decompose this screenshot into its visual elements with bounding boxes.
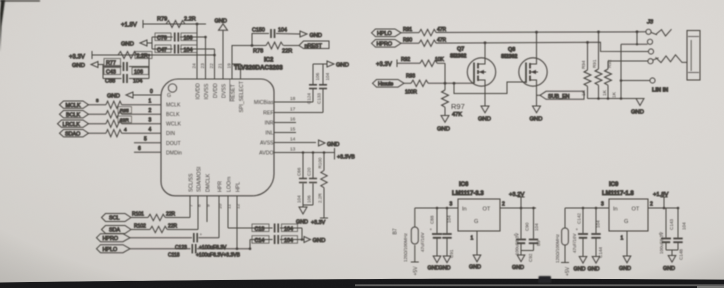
ground GND (below C66/C20) [296, 205, 308, 225]
IC2 designator label [234, 58, 283, 72]
wire DMDin stub pin6 [134, 146, 161, 152]
wire IC6 input rail [415, 202, 458, 210]
IC2 right pin labels [254, 100, 274, 157]
node junction +1.8V / IOVDD [196, 23, 199, 26]
IC2 bottom pin numbers [189, 203, 242, 209]
port HPLO (right section) [372, 29, 402, 37]
wire DMCLK stub pin9 [206, 196, 208, 222]
ferrite bead B8 120ohm/100MHz [555, 208, 571, 276]
wire Q8 drain to HPLO line [536, 32, 538, 59]
IC2 left pin labels [166, 93, 182, 157]
port SDAO [60, 130, 89, 138]
wire DVDD pin22 [214, 49, 216, 79]
wire C66/C20 bottoms join [303, 204, 313, 206]
overline on RESET [229, 80, 231, 102]
ground GND (left of C43/C88) [72, 62, 103, 70]
resistor R94 1K (pulldown, HPRO) [581, 42, 591, 98]
capacitor C14 104 [250, 235, 302, 244]
wire SCL to pin7 [189, 196, 191, 218]
resistor R93 100R [404, 74, 474, 96]
IC IC2 TLV320DAC3203 body [161, 79, 274, 196]
port BCLK [60, 111, 89, 119]
ground GND (IC9 tab pin1) [619, 231, 631, 272]
ground GND (AVSS) [319, 140, 340, 148]
J3 switch spring (tip) [651, 29, 671, 36]
capacitor C123 +100uF6.3V (HPR coupling) [130, 232, 227, 251]
port SCL [102, 214, 132, 222]
ground GND (R97) [437, 116, 450, 133]
capacitor C78 106 [152, 33, 206, 42]
resistor R79 2.2R [157, 17, 196, 28]
ground GND (C91) [439, 252, 451, 272]
capacitor C47 104 [152, 45, 215, 54]
wire pulldown bus [588, 98, 641, 100]
ground GND (C88el) [428, 252, 441, 272]
wire cap right join to +3.3V rail [148, 55, 150, 79]
capacitor C150 104 [252, 28, 300, 39]
wire DOUT stub pin5 [134, 137, 161, 143]
resistor R101 22R [131, 212, 190, 221]
ground GND (IC9 out caps) [663, 250, 676, 272]
wire C150/R78 join [251, 33, 253, 46]
wire Q8 source down [536, 85, 538, 106]
wire cap tops join [313, 63, 327, 65]
resistor R77 2.2R [104, 52, 152, 67]
ground GND (Q7) [478, 106, 491, 122]
resistor R (LRCLK series 22R) [89, 116, 162, 127]
wire SPI_SELECT [232, 64, 241, 79]
wire C13/C14 right join [301, 228, 303, 240]
capacitor C142el 47uF/16V [572, 208, 588, 253]
IC2 right pin stubs with numbers [274, 96, 330, 153]
wire jack contact row 4 [608, 60, 648, 62]
resistor R100 2.2R (AVDD to +3.3V) [318, 153, 327, 219]
net +3.3V (below R100) [311, 218, 328, 226]
connector J3 jack body [646, 20, 700, 81]
wire Q7 drain to HPRO line [484, 43, 486, 59]
wire HPL pin12 [236, 196, 238, 249]
port HPRO (right section) [372, 40, 402, 48]
port Hmute [373, 80, 405, 88]
wire HPRO to jack [436, 42, 648, 51]
ground GND (left of C78/C47) [121, 40, 152, 48]
capacitor C133 104 (REF) [317, 64, 330, 113]
wire HPLO to jack [436, 31, 646, 34]
wire cap left join [151, 37, 153, 49]
wire LOOm pin11 to C13 [227, 196, 229, 228]
resistor R97 47K (pulldown) [442, 83, 465, 118]
transistor Q8 SI2302 [501, 47, 547, 86]
J3 contact pins [646, 29, 655, 83]
capacitor C43 106 [103, 62, 149, 75]
capacitor C88el 47uF/16V [420, 208, 442, 252]
resistor R (MCLK series 22R) [89, 98, 162, 108]
resistor R96 1K (pulldown, ring) [605, 59, 618, 98]
wire RESET pin19 [232, 46, 252, 80]
ground GND (pin G row) [107, 89, 161, 100]
capacitor C20 106 (AVDD) [307, 153, 317, 206]
resistor R102 22R [131, 224, 198, 233]
wire Q7 source down [484, 85, 486, 106]
dark sliver top-left photo edge [0, 0, 5, 52]
ground GND (jack bus) [631, 99, 644, 116]
transistor Q7 SI2302 [450, 47, 496, 87]
net +1.8V [121, 20, 143, 29]
resistor R92 10K [397, 57, 445, 67]
capacitor C143el 100uF6.3V [659, 208, 674, 254]
capacitor C92 104 [521, 208, 541, 262]
IC2 top pin numbers [192, 63, 233, 69]
port HPLO [97, 245, 131, 253]
wire HPR pin10 [218, 196, 220, 238]
port MCLK [60, 101, 89, 109]
capacitor C13 104 [228, 224, 302, 233]
table edge highlight line bottom right [355, 284, 724, 286]
wire C14 left to HPLO line [249, 240, 251, 249]
wire +3.3V rail [92, 54, 215, 56]
capacitor C66 104 (AVDD) [297, 153, 307, 206]
IC2 top pin labels (vertical) [196, 80, 246, 112]
capacitor C124 106 (MICBias) [307, 64, 320, 104]
port LRCLK [58, 120, 89, 128]
port nREST [299, 41, 329, 49]
wire IOVSS pin23 [205, 37, 207, 79]
wire LIN IN sleeve row [620, 44, 668, 98]
wire IOVDD pin24 [196, 24, 198, 79]
port SDA [102, 226, 132, 234]
ferrite bead B7 120ohm/100MHz [393, 208, 420, 276]
regulator IC9 LM1117-1.8 [602, 182, 648, 231]
capacitor C91 104 [442, 208, 454, 258]
dark nub on table edge [539, 276, 552, 283]
ground GND (C144) [588, 252, 600, 273]
wire R92 down to Hmute row [444, 63, 446, 83]
ground GND (right of C150) [300, 31, 322, 39]
wire gate bus to Q8 [454, 82, 526, 94]
capacitor C88 104 [103, 74, 149, 85]
net +3.3V (R92) [376, 60, 397, 69]
resistor R (SDAO series 22R) [89, 127, 162, 137]
port SUB_EN [537, 91, 585, 100]
wire SDA to pin8 [197, 196, 199, 230]
ground GND (top right of caps) [327, 61, 349, 69]
resistor R91 47R [401, 27, 447, 36]
net +3.3VB (AVDD) [330, 148, 355, 161]
net +1.8V (IC9 out) [648, 192, 679, 210]
capacitor C146 104 [666, 208, 686, 260]
regulator IC6 LM1117-3.3 [452, 182, 500, 231]
photo grain overlay [0, 0, 1, 1]
wire IC9 input rail [565, 202, 609, 210]
ground GND (IC6 tab pin1) [469, 231, 481, 271]
pin-1 marker circle [168, 84, 176, 92]
capacitor C144 104 [591, 208, 603, 258]
port HPRO [97, 234, 131, 242]
ground GND (C142el) [574, 252, 587, 273]
net +3.3V [69, 51, 92, 61]
resistor R90 47R [401, 38, 447, 47]
vignette corners [0, 0, 1, 1]
net +3.3V (IC6 out) [500, 192, 536, 210]
J3 switch spring (ring) [653, 55, 687, 63]
wire +1.8V rail [143, 23, 206, 25]
ground GND (right of C13/C14) [302, 237, 325, 245]
ground GND (Q8) [530, 106, 543, 122]
resistor R95 1K (pulldown, HPLO) [592, 32, 608, 99]
capacitor C118 +100uF6.3V (HPL coupling) [130, 244, 250, 259]
ground GND triangle (top of DVSS) [215, 18, 228, 79]
resistor R (BCLK series 22R) [89, 107, 162, 118]
table dark band at bottom (photo background) [0, 279, 724, 288]
dark line top edge [0, 0, 40, 2]
ground GND (IC6 out caps) [512, 255, 525, 271]
wire cap left join [102, 64, 104, 79]
capacitor C90el 100uF6.3V [514, 208, 530, 255]
IC2 bottom pin labels (vertical) [189, 167, 242, 192]
resistor R78 22R [252, 42, 299, 54]
